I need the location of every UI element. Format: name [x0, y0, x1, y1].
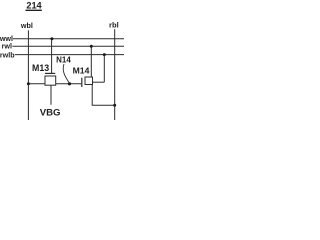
svg-text:wbl: wbl: [20, 21, 33, 30]
junction dot wwl/M13 gate: [50, 37, 53, 40]
wire rwlb drop vertical: [103, 55, 105, 83]
wire rwl to M14 top: [90, 46, 92, 77]
wire rwlb horizontal: [15, 54, 124, 56]
wire wbl vertical: [27, 30, 29, 120]
junction dot rwl/M14: [90, 45, 93, 48]
wire wwl horizontal: [13, 38, 124, 40]
svg-text:rbl: rbl: [109, 21, 119, 30]
svg-text:214: 214: [26, 0, 42, 10]
junction dot rwlb drop: [103, 53, 106, 56]
wire M14 bottom leg to rbl: [92, 85, 115, 106]
junction dot node N14: [68, 82, 71, 85]
wire M14 right to rwlb drop: [93, 81, 105, 83]
wire rbl vertical: [114, 29, 116, 120]
underline for 214: [26, 9, 42, 11]
transistor M13: [45, 76, 56, 85]
transistor M14: [85, 77, 93, 85]
svg-text:rwl: rwl: [2, 41, 12, 50]
svg-text:M13: M13: [32, 63, 49, 73]
junction dot wbl/M13: [27, 82, 30, 85]
junction dot rbl bottom: [113, 104, 116, 107]
transistor M14 gate bar: [81, 78, 83, 87]
svg-text:rwlb: rwlb: [0, 51, 15, 60]
wire node N14 from M13 to M14 gate: [56, 83, 82, 85]
wire M13 bottom to VBG: [50, 85, 52, 105]
svg-text:N14: N14: [56, 56, 71, 65]
leader line to node N14: [63, 64, 69, 83]
wire wbl to M13 left terminal: [28, 83, 45, 85]
wire rwl horizontal: [12, 45, 124, 47]
wire wwl to M13 gate: [51, 39, 53, 74]
transistor M13 gate bar: [45, 72, 55, 74]
svg-text:VBG: VBG: [40, 107, 61, 118]
svg-text:M14: M14: [73, 66, 90, 76]
